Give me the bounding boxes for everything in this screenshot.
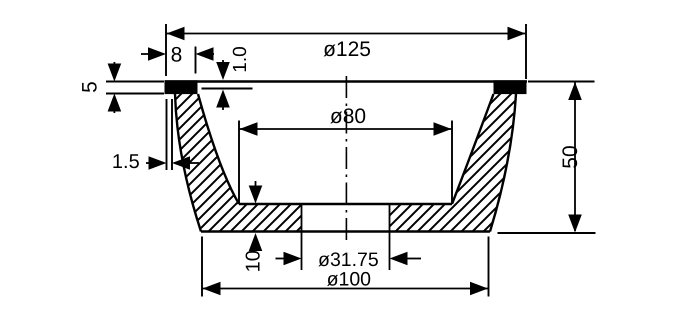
dim 8 tick xyxy=(195,47,197,74)
bottom edge xyxy=(201,230,490,232)
dim o80 line xyxy=(239,128,452,130)
right wall inner edge xyxy=(452,94,494,204)
dim o100 extension left xyxy=(201,237,203,297)
svg-text:10: 10 xyxy=(243,250,265,272)
svg-text:ø31.75: ø31.75 xyxy=(318,249,379,271)
dim 5 arrow lower xyxy=(113,107,115,113)
svg-text:50: 50 xyxy=(559,145,582,168)
dim 8 arrow left xyxy=(141,53,152,55)
dim o31.75 arrow right xyxy=(405,258,421,260)
dim 10 arrow lower xyxy=(255,244,257,249)
dim 1.5 arrow left xyxy=(146,162,152,164)
svg-text:ø100: ø100 xyxy=(327,269,372,291)
svg-text:ø80: ø80 xyxy=(330,105,366,128)
dim o100 line xyxy=(202,288,489,290)
cavity floor edge xyxy=(239,203,452,205)
left wall inner edge xyxy=(198,94,239,204)
dim 50 arrow down xyxy=(568,215,582,233)
dim 1.0 arrow lower xyxy=(222,104,224,110)
dim o31.75 arrow left xyxy=(276,258,287,260)
top face edge xyxy=(165,80,528,83)
dim o80 extension left xyxy=(238,121,240,205)
abrasive rim block right xyxy=(494,80,527,94)
svg-text:1.0: 1.0 xyxy=(230,46,251,72)
hatched cross-section left wall and base xyxy=(175,94,302,232)
dim 5 extension lower xyxy=(106,93,164,95)
svg-text:1.5: 1.5 xyxy=(112,151,140,173)
dim o125 line xyxy=(166,33,526,35)
dim o125 extension right xyxy=(525,24,527,79)
dim 8 arrow right xyxy=(206,53,214,55)
hatched cross-section right wall and base xyxy=(390,94,517,232)
dim 50 extension bottom xyxy=(498,232,596,234)
dim 5 arrow upper xyxy=(113,62,115,68)
dim 1.0 arrow upper xyxy=(222,60,224,66)
dim o125 arrow left xyxy=(167,27,185,41)
svg-text:ø125: ø125 xyxy=(323,38,371,61)
dim o100 extension right xyxy=(488,237,490,297)
svg-text:8: 8 xyxy=(171,44,183,67)
dim 10 arrow upper xyxy=(255,181,257,189)
dim 1.5 arrow right xyxy=(186,162,199,164)
dim o80 arrow right xyxy=(434,122,452,136)
dim o80 extension right xyxy=(451,121,453,205)
dim o100 arrow right xyxy=(470,282,488,296)
left wall outer edge xyxy=(175,94,201,232)
dim 1.5 tick left xyxy=(166,99,168,170)
right wall outer edge xyxy=(490,94,516,232)
dim 50 extension top xyxy=(528,81,595,83)
bore left edge xyxy=(301,204,303,270)
dim o125 arrow right xyxy=(508,27,526,41)
svg-text:5: 5 xyxy=(79,81,102,93)
dim o80 arrow left xyxy=(240,122,258,136)
dim 50 arrow up xyxy=(568,82,582,100)
dim o100 arrow left xyxy=(203,282,221,296)
dim o125 extension left xyxy=(165,24,167,76)
dim 1.0 extension xyxy=(202,88,253,90)
abrasive rim block left xyxy=(165,80,198,94)
dim 1.5 tick right xyxy=(171,99,173,170)
bore right edge xyxy=(389,204,391,270)
centerline xyxy=(345,76,347,242)
dim 50 line xyxy=(574,83,576,232)
dim 5 extension upper xyxy=(106,81,164,83)
